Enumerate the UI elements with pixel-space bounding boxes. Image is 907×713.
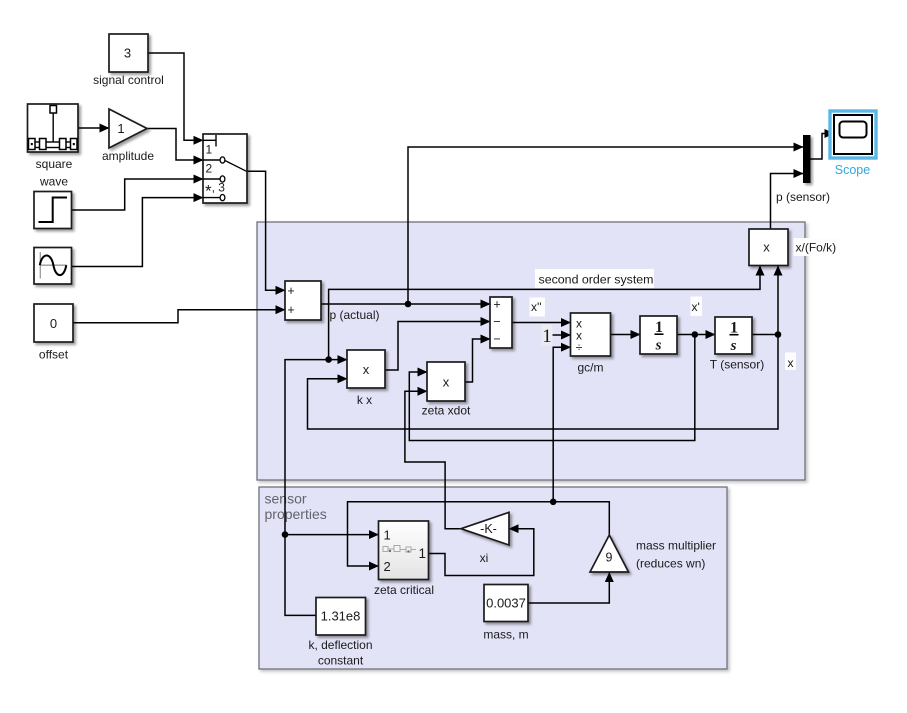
- svg-text:1: 1: [384, 528, 391, 543]
- constant block: signal control value 3: [93, 34, 164, 87]
- svg-text:s: s: [655, 338, 662, 354]
- wire: step to switch input 3: [72, 179, 204, 210]
- svg-text:-K-: -K-: [480, 522, 497, 536]
- wire: gc/m output to integrator 1: [611, 334, 641, 336]
- constant: 1 (gc/m input): [542, 325, 553, 348]
- wire: mass multiplier branch to gc/m input 3: [553, 347, 570, 502]
- source block: square wave: [28, 104, 79, 189]
- svg-text:gc/m: gc/m: [577, 361, 603, 375]
- node: junction k at zeta critical: [282, 531, 289, 538]
- wire: constant 1 to gc/m input 2: [552, 334, 571, 336]
- node: junction p actual: [405, 301, 412, 308]
- label: x'': [530, 298, 546, 317]
- wire: integrator 2 output to junction x: [752, 334, 778, 336]
- wire: k x output to second sum input 2: [385, 322, 490, 371]
- svg-text:2: 2: [384, 559, 391, 574]
- area: second order system: [257, 222, 805, 480]
- svg-text:properties: properties: [265, 506, 327, 522]
- svg-text:k x: k x: [357, 393, 372, 407]
- product block: x/(Fo/k): [749, 229, 839, 266]
- product block: k x: [347, 350, 385, 407]
- gain block: mass multiplier 9 pointing up: [590, 535, 629, 572]
- wire: integrator 1 output to integrator 2: [677, 334, 715, 336]
- constant block: 1.31e8: [308, 598, 372, 668]
- svg-text:1.31e8: 1.31e8: [321, 609, 361, 624]
- wire: p actual branch up to mux input 1: [408, 147, 803, 304]
- svg-text:x/(Fo/k): x/(Fo/k): [796, 241, 837, 255]
- svg-text:p (actual): p (actual): [330, 308, 380, 322]
- wire: mass multiplier output to zeta critical input 2: [348, 502, 610, 566]
- svg-text:0.0037: 0.0037: [486, 596, 526, 611]
- wire: offset to sum p actual input 2: [73, 310, 285, 323]
- wire: k constant 1.31e8 up the left side: [285, 535, 316, 616]
- svg-text:1: 1: [117, 121, 124, 136]
- node: junction k at k x input: [325, 356, 332, 363]
- wire: k branch to x/(Fo/k) bottom input 1: [329, 266, 760, 360]
- wire: x' feedback to zeta xdot input 1: [409, 335, 695, 441]
- gain block: xi (-K-) pointing left: [461, 512, 509, 565]
- wire: x feedback to k x input 2: [308, 335, 779, 430]
- wire: k to zeta critical input 1: [285, 534, 378, 536]
- multiport switch block: [203, 134, 247, 203]
- svg-text:−: −: [493, 332, 500, 346]
- svg-text:3: 3: [124, 46, 131, 61]
- svg-text:k, deflection: k, deflection: [308, 638, 372, 652]
- product block: gc/m: [571, 313, 611, 375]
- area: sensor properties: [259, 487, 727, 669]
- gain block: amplitude: [102, 109, 154, 163]
- wire: x up to x/(Fo/k) bottom input 2: [777, 266, 779, 335]
- svg-text:square: square: [36, 157, 73, 171]
- wire: sum p actual output to second sum input 1: [321, 303, 490, 305]
- svg-text:wave: wave: [39, 175, 68, 189]
- wire: zeta xdot output to second sum input 3: [465, 339, 490, 382]
- svg-text:x: x: [363, 362, 370, 377]
- mux block: [803, 135, 811, 183]
- svg-text:s: s: [730, 338, 737, 354]
- label: x: [785, 353, 796, 371]
- node: junction mass multiplier: [550, 499, 557, 506]
- wire: mass m to mass multiplier gain: [528, 573, 609, 604]
- svg-text:(reduces wn): (reduces wn): [636, 557, 705, 571]
- svg-text:+: +: [493, 298, 500, 312]
- node: junction x': [692, 331, 699, 338]
- wire: second sum output to gc/m input 1: [512, 322, 571, 324]
- constant block: mass m 0.0037: [483, 585, 528, 642]
- svg-text:mass, m: mass, m: [483, 628, 528, 642]
- svg-text:offset: offset: [39, 348, 69, 362]
- svg-text:0: 0: [50, 316, 57, 331]
- svg-text:1: 1: [419, 546, 427, 561]
- svg-text:x: x: [788, 356, 794, 370]
- svg-text:x'': x'': [531, 300, 542, 314]
- svg-text:x: x: [443, 375, 450, 390]
- wire: mux output to scope: [811, 134, 835, 160]
- sum block: plus minus minus: [490, 297, 512, 348]
- svg-text:x': x': [692, 300, 700, 314]
- integrator block 2: T (sensor): [710, 317, 764, 372]
- svg-text:Scope: Scope: [835, 163, 870, 177]
- product block: zeta xdot: [422, 362, 471, 418]
- label: second order system: [535, 269, 654, 288]
- wire: switch output to sum p actual input 1: [247, 171, 285, 290]
- svg-text:x: x: [763, 240, 770, 255]
- constant block: offset value 0: [34, 304, 73, 362]
- wire: constant 3 to switch input 1: [148, 53, 203, 140]
- svg-text:+: +: [287, 303, 294, 317]
- wire: x/(Fo/k) output to mux input 2: [771, 174, 804, 230]
- label: mass multiplier: [636, 539, 716, 571]
- svg-text:signal control: signal control: [93, 73, 164, 87]
- svg-text:9: 9: [606, 551, 613, 565]
- svg-text:second order system: second order system: [539, 273, 654, 287]
- svg-text:1: 1: [206, 143, 213, 157]
- source block: sine wave: [34, 248, 72, 285]
- svg-text:zeta critical: zeta critical: [374, 583, 434, 597]
- wire: zeta critical output to xi gain input: [429, 529, 534, 576]
- wire: xi gain output to zeta xdot input 2: [405, 391, 461, 528]
- svg-text:+: +: [287, 284, 294, 298]
- subsystem block: zeta critical: [374, 521, 434, 597]
- svg-text:mass multiplier: mass multiplier: [636, 539, 716, 553]
- svg-text:2: 2: [206, 162, 213, 176]
- integrator block 1: [640, 316, 677, 354]
- wire: k up to k x input 1: [285, 360, 347, 535]
- svg-text:1: 1: [542, 326, 552, 347]
- node: junction x: [775, 331, 782, 338]
- svg-text:xi: xi: [480, 551, 489, 565]
- scope block: [830, 111, 876, 177]
- svg-text:T (sensor): T (sensor): [710, 358, 764, 372]
- wire: square wave to amplitude gain: [78, 127, 109, 129]
- sum block: p actual: [285, 281, 380, 322]
- svg-text:zeta xdot: zeta xdot: [422, 404, 471, 418]
- wire: sine wave to switch input 4: [72, 198, 204, 267]
- svg-text:−: −: [493, 315, 500, 329]
- svg-text:p (sensor): p (sensor): [776, 190, 830, 204]
- svg-text:÷: ÷: [576, 341, 583, 355]
- label: sensor properties: [265, 491, 327, 523]
- source block: step: [34, 192, 72, 229]
- svg-text:amplitude: amplitude: [102, 149, 154, 163]
- label: x': [691, 297, 703, 317]
- wire: amplitude gain to switch input 2: [147, 129, 203, 161]
- svg-text:constant: constant: [318, 654, 364, 668]
